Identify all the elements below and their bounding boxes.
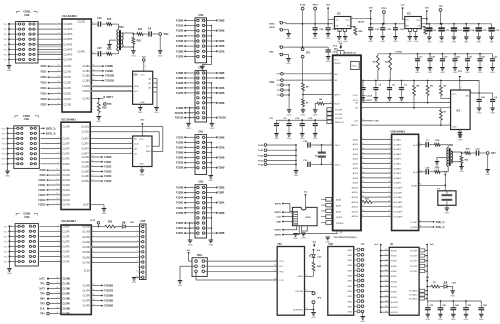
ground of LED [447, 287, 453, 291]
resistor R19 [429, 171, 434, 173]
wire CN6 ground bus [283, 84, 289, 86]
svg-text:2: 2 [137, 230, 138, 232]
ground [141, 167, 143, 171]
svg-text:GND: GND [274, 138, 279, 140]
svg-text:GND: GND [464, 319, 469, 321]
ground [459, 166, 464, 168]
svg-text:ACB16: ACB16 [352, 215, 359, 218]
svg-text:F1D5B: F1D5B [176, 147, 184, 149]
svg-text:10: 10 [136, 271, 138, 273]
svg-text:XC95/VLC2: XC95/VLC2 [344, 52, 356, 54]
svg-text:HG5B: HG5B [391, 276, 397, 278]
svg-text:U1C-BANK1: U1C-BANK1 [61, 117, 77, 121]
LED LD3 [440, 286, 444, 288]
svg-text:F1D3B: F1D3B [176, 168, 184, 170]
svg-text:103: 103 [385, 265, 388, 267]
ground [311, 312, 316, 314]
svg-text:12: 12 [56, 179, 58, 181]
capacitor C6 [492, 93, 494, 100]
svg-text:GND: GND [415, 72, 420, 74]
svg-text:GND: GND [107, 49, 112, 51]
resistor R16 [102, 23, 107, 25]
svg-text:CN9: CN9 [269, 51, 274, 53]
svg-text:SDA: SDA [134, 85, 139, 88]
wire TR1 secondary bottom [451, 162, 462, 167]
svg-text:CL7NS: CL7NS [64, 105, 72, 107]
svg-text:GND: GND [287, 138, 292, 140]
svg-text:GND: GND [301, 114, 306, 116]
svg-text:20: 20 [362, 181, 364, 183]
wire 3V3 into IC5 [328, 18, 334, 20]
svg-text:6: 6 [92, 256, 93, 258]
ground of CN3 [202, 57, 211, 67]
resistor R7 pulldown [302, 99, 305, 106]
resistor R10 [377, 56, 380, 71]
svg-text:F1D8B: F1D8B [217, 233, 225, 235]
svg-text:F1D8B: F1D8B [176, 108, 184, 110]
svg-text:4: 4 [57, 142, 58, 144]
svg-text:GND: GND [287, 114, 292, 116]
svg-text:8: 8 [57, 260, 58, 262]
svg-text:VCCAUX: VCCAUX [409, 290, 418, 293]
svg-text:1: 1 [449, 124, 450, 126]
svg-text:GND: GND [347, 276, 352, 278]
svg-text:TDO: TDO [279, 261, 284, 263]
svg-text:F1D9B: F1D9B [176, 78, 184, 80]
ground [132, 47, 134, 51]
svg-text:F1D4B: F1D4B [217, 157, 225, 160]
svg-text:71: 71 [306, 275, 308, 277]
svg-text:CL1BS: CL1BS [83, 71, 91, 73]
LED LD2 [313, 250, 315, 254]
svg-text:GL2AP1: GL2AP1 [393, 148, 402, 151]
svg-text:R16: R16 [107, 19, 112, 21]
svg-text:GND: GND [347, 265, 352, 267]
svg-text:GND: GND [286, 63, 291, 65]
svg-text:49: 49 [362, 94, 364, 96]
svg-text:CLK: CLK [277, 217, 282, 219]
svg-text:5: 5 [137, 245, 138, 247]
svg-text:F1D23: F1D23 [104, 170, 112, 173]
svg-text:F1D20B: F1D20B [104, 305, 113, 308]
svg-text:F1D2: F1D2 [41, 76, 48, 79]
svg-text:4: 4 [471, 91, 472, 93]
svg-text:GND: GND [393, 41, 398, 43]
svg-text:CL0N6: CL0N6 [82, 157, 90, 159]
svg-text:CL4P2: CL4P2 [63, 159, 71, 161]
svg-text:ACB6: ACB6 [353, 167, 359, 170]
svg-text:F1D6B: F1D6B [217, 137, 225, 139]
svg-text:7: 7 [57, 157, 58, 159]
svg-text:VCCINT: VCCINT [410, 250, 418, 252]
svg-text:43: 43 [91, 170, 93, 172]
svg-text:CN4: CN4 [164, 33, 169, 36]
svg-text:GND: GND [347, 260, 352, 262]
svg-text:GL4AP1: GL4AP1 [393, 158, 402, 161]
capacitor C8 [143, 33, 148, 35]
svg-text:F1D4B: F1D4B [176, 187, 184, 190]
svg-text:GND: GND [485, 174, 490, 176]
svg-text:GND: GND [140, 175, 145, 177]
svg-text:GND: GND [276, 222, 281, 224]
svg-text:GND: GND [464, 42, 469, 44]
svg-text:CL5N6: CL5N6 [82, 181, 90, 183]
svg-text:47: 47 [362, 119, 364, 121]
svg-text:GND: GND [347, 312, 352, 314]
svg-text:VCC: VCC [452, 94, 457, 96]
svg-text:DL6N0: DL6N0 [83, 257, 91, 259]
connector CON0 [16, 213, 20, 215]
wire VCORE rail to caps [277, 119, 327, 121]
svg-text:VCCINT: VCCINT [410, 266, 418, 268]
connector CN10 [292, 207, 317, 225]
wire R17 to T1 [112, 53, 119, 55]
svg-text:F1D21: F1D21 [104, 161, 112, 164]
net arrow PV3 [341, 35, 355, 43]
pins under IC3 [408, 29, 411, 32]
svg-text:CL4PS: CL4PS [78, 52, 86, 54]
svg-text:22: 22 [57, 76, 59, 78]
svg-text:CN5: CN5 [140, 220, 145, 223]
svg-text:GND: GND [186, 128, 191, 130]
resistor R9 [427, 80, 429, 82]
svg-text:F1D8B: F1D8B [217, 20, 225, 22]
svg-text:27: 27 [57, 103, 59, 105]
svg-text:SWt(_1): SWt(_1) [436, 221, 445, 224]
svg-text:GL3P9: GL3P9 [83, 301, 91, 303]
ground [381, 36, 386, 38]
wire U1C to IC7 data pins [90, 137, 132, 139]
wire CON0 to U1D [40, 225, 61, 227]
svg-text:CL2P2: CL2P2 [63, 149, 71, 151]
svg-text:GND: GND [479, 319, 484, 321]
svg-text:23: 23 [57, 81, 59, 83]
ground [294, 170, 299, 172]
comparator IC7 [133, 136, 152, 167]
svg-text:F1D4B: F1D4B [176, 141, 184, 144]
svg-text:C26: C26 [97, 18, 102, 20]
svg-text:41: 41 [91, 160, 93, 162]
svg-text:37: 37 [56, 312, 58, 314]
svg-text:ACB1: ACB1 [353, 143, 359, 146]
svg-text:10: 10 [388, 181, 390, 183]
eeprom IC6 [133, 71, 153, 104]
svg-text:2: 2 [57, 230, 58, 232]
svg-text:2xT2: 2xT2 [90, 220, 96, 222]
svg-text:CL5P8: CL5P8 [63, 304, 71, 306]
svg-text:F1D5B: F1D5B [176, 46, 184, 48]
svg-text:TP10: TP10 [312, 5, 318, 7]
svg-text:HG2B: HG2B [391, 261, 397, 263]
svg-text:1: 1 [129, 137, 130, 139]
svg-text:VCCAUX: VCCAUX [409, 298, 418, 301]
resistor R21 [460, 156, 463, 163]
svg-text:GL/UPN1: GL/UPN1 [413, 172, 422, 174]
svg-text:GL16AP1: GL16AP1 [393, 215, 403, 218]
svg-text:14: 14 [362, 152, 364, 154]
svg-text:CL0N8: CL0N8 [63, 279, 71, 281]
wire 3V3 to caps [460, 81, 479, 94]
svg-text:GND: GND [458, 139, 463, 141]
svg-text:F1D9B: F1D9B [217, 31, 225, 33]
svg-text:7: 7 [137, 256, 138, 258]
svg-text:GL0AP1: GL0AP1 [393, 139, 402, 142]
buffer IC4 [451, 90, 471, 130]
ground under CN7 [487, 154, 489, 169]
svg-text:GND: GND [286, 38, 291, 40]
svg-text:CL2APS: CL2APS [64, 33, 73, 36]
svg-text:GND: GND [140, 102, 145, 104]
ground of CN2 right [210, 228, 212, 240]
svg-text:CL1N6: CL1N6 [82, 162, 90, 164]
svg-text:GND: GND [188, 245, 193, 247]
svg-text:CL3BS: CL3BS [83, 81, 91, 83]
svg-text:SWTE: SWTE [275, 235, 282, 237]
svg-text:CCLK: CCLK [367, 95, 373, 97]
svg-text:33: 33 [56, 292, 58, 294]
svg-text:Vout: Vout [346, 19, 350, 22]
svg-text:VCC: VCC [140, 75, 145, 77]
ground [301, 109, 306, 111]
svg-text:CL3PV: CL3PV [81, 154, 89, 156]
svg-text:CL1N0: CL1N0 [63, 127, 71, 129]
ground at U1C output [90, 204, 104, 206]
svg-text:79: 79 [419, 143, 421, 145]
svg-text:GND: GND [414, 41, 419, 43]
capacitor C5 [375, 80, 377, 82]
svg-text:16: 16 [362, 162, 364, 164]
ground tap of TR1 [437, 158, 448, 162]
svg-text:GND: GND [490, 113, 495, 115]
svg-text:GND: GND [326, 38, 331, 40]
svg-text:GND: GND [489, 42, 494, 44]
svg-text:ADB1: ADB1 [336, 205, 342, 208]
svg-text:8: 8 [137, 261, 138, 263]
capacitor C19 osc [296, 163, 306, 165]
gray highlighted net U1D row5 [91, 246, 138, 248]
svg-text:17: 17 [388, 215, 390, 217]
svg-text:CL4P5: CL4P5 [63, 246, 71, 248]
svg-text:IC3: IC3 [407, 12, 411, 15]
svg-text:GND: GND [445, 213, 450, 215]
svg-text:CL5N4: CL5N4 [63, 195, 71, 197]
svg-text:DL4N0: DL4N0 [83, 247, 91, 249]
svg-text:109: 109 [385, 295, 388, 297]
svg-text:CL3P: CL3P [83, 205, 89, 207]
svg-text:GND: GND [368, 41, 373, 43]
wire GEN0 [305, 275, 314, 277]
svg-text:GND: GND [208, 180, 213, 182]
svg-text:F1D7B: F1D7B [217, 51, 225, 53]
svg-text:31: 31 [56, 282, 58, 284]
svg-text:PROGB: PROGB [295, 291, 303, 293]
svg-text:GND: GND [301, 238, 306, 240]
svg-text:GND: GND [452, 127, 457, 129]
svg-text:32: 32 [56, 287, 58, 289]
svg-text:TR1: TR1 [449, 144, 454, 147]
svg-text:Vout: Vout [416, 19, 420, 22]
svg-text:13: 13 [274, 265, 276, 267]
svg-text:26: 26 [362, 210, 364, 212]
svg-text:U5C: U5C [277, 244, 282, 246]
svg-text:F1D4C: F1D4C [176, 202, 184, 205]
resistor R27 feedback [421, 26, 425, 28]
ground of CN0 right [210, 103, 212, 124]
ground of MCU bottom [296, 231, 338, 234]
svg-text:>A3V3: >A3V3 [358, 21, 366, 24]
svg-text:GND: GND [326, 61, 331, 63]
svg-text:GND: GND [427, 42, 432, 44]
svg-text:6: 6 [275, 260, 276, 262]
svg-text:F1D22: F1D22 [104, 166, 112, 169]
svg-text:GL1AP1: GL1AP1 [393, 143, 402, 146]
svg-text:F1D1: F1D1 [41, 71, 48, 74]
resistor R6 [440, 80, 442, 82]
svg-text:GND: GND [132, 282, 137, 284]
svg-text:F1D8B: F1D8B [217, 73, 225, 75]
wire IC6 address pins to ground bus [153, 78, 157, 80]
LED LD1 [116, 226, 123, 228]
svg-text:F1D10B: F1D10B [175, 113, 184, 115]
svg-text:1: 1 [129, 142, 130, 144]
svg-text:F1D5B: F1D5B [176, 213, 184, 215]
svg-text:2: 2 [389, 143, 390, 145]
svg-text:F1D15: F1D15 [38, 204, 46, 207]
svg-text:1: 1 [58, 22, 59, 24]
capacitor C2 [362, 80, 364, 82]
svg-text:F1D8: F1D8 [40, 169, 47, 172]
svg-text:F1D13: F1D13 [38, 194, 46, 197]
resistor R20 [462, 152, 465, 154]
wire SUSPEND to ground [305, 309, 314, 311]
svg-text:DL1N0: DL1N0 [83, 232, 91, 234]
svg-text:GL/IPW1: GL/IPW1 [413, 145, 422, 147]
svg-text:CL7P5: CL7P5 [63, 262, 71, 264]
svg-text:20: 20 [57, 65, 59, 67]
svg-text:1: 1 [129, 147, 130, 149]
svg-text:5: 5 [352, 17, 353, 19]
svg-text:F1D0B: F1D0B [217, 41, 225, 43]
svg-text:GND: GND [452, 42, 457, 44]
wire IC5 output to A3V3 rail [351, 18, 371, 20]
svg-text:ACB9: ACB9 [353, 182, 359, 185]
svg-text:104: 104 [385, 270, 388, 272]
svg-text:DL7N0: DL7N0 [83, 263, 91, 265]
svg-text:Pv32: Pv32 [258, 156, 264, 158]
resistor R7 [440, 110, 443, 120]
svg-text:CL4APS: CL4APS [64, 43, 73, 46]
svg-text:4: 4 [389, 152, 390, 154]
svg-text:4: 4 [330, 78, 331, 80]
svg-text:MCLR: MCLR [334, 104, 340, 106]
svg-text:U1D-BANK1: U1D-BANK1 [61, 219, 77, 223]
svg-text:CL0PV: CL0PV [81, 138, 89, 140]
svg-text:44: 44 [91, 175, 93, 177]
svg-text:VREF3: VREF3 [334, 63, 341, 65]
svg-text:84: 84 [419, 184, 421, 186]
wire CN11 TCK [196, 273, 277, 280]
svg-text:GND: GND [343, 41, 348, 43]
svg-text:6: 6 [137, 250, 138, 252]
capacitor C36 [382, 24, 384, 28]
svg-text:HG6B: HG6B [391, 281, 397, 283]
capacitor C18 osc [296, 144, 306, 146]
svg-text:CL2NS: CL2NS [64, 77, 72, 79]
svg-text:CL4N6: CL4N6 [82, 176, 90, 178]
wire MCU to IC4 net2 [365, 107, 451, 109]
svg-text:15: 15 [388, 205, 390, 207]
svg-text:HG4B: HG4B [391, 271, 397, 273]
svg-text:CL6NS: CL6NS [64, 99, 72, 101]
svg-text:2: 2 [58, 28, 59, 30]
connector CON2 [17, 11, 21, 13]
capacitor C37 [327, 47, 329, 50]
svg-text:13: 13 [362, 148, 364, 150]
ground of CN30 [283, 30, 289, 34]
svg-text:2xT3: 2xT3 [39, 289, 45, 291]
wire R6 to IC4 [441, 98, 451, 100]
svg-text:CN10: CN10 [305, 217, 311, 219]
svg-text:F1D8F: F1D8F [217, 193, 225, 195]
svg-text:F1D7B: F1D7B [176, 57, 184, 59]
svg-text:F1D6B: F1D6B [217, 93, 225, 95]
svg-text:GL14AP1: GL14AP1 [393, 206, 403, 209]
svg-text:GL8AP1: GL8AP1 [393, 177, 402, 180]
svg-text:100: 100 [385, 249, 388, 251]
svg-text:CN3: CN3 [198, 14, 203, 17]
resistor R25 [132, 37, 135, 44]
svg-text:DV30: DV30 [269, 24, 275, 26]
svg-text:-CN1-: -CN1- [23, 118, 30, 121]
svg-text:GND: GND [347, 281, 352, 283]
svg-text:GL/BN: GL/BN [411, 185, 418, 187]
svg-text:F1D24: F1D24 [104, 175, 112, 178]
svg-text:HG11B: HG11B [391, 307, 398, 309]
wire IC4 top pin to 3V3 [459, 81, 461, 91]
svg-text:F1D11B: F1D11B [175, 118, 184, 120]
wire IC4 output [470, 92, 493, 94]
svg-text:CL6P5: CL6P5 [63, 257, 71, 259]
svg-text:GL10AP1: GL10AP1 [393, 187, 403, 190]
svg-text:>3V3A: >3V3A [395, 51, 402, 54]
wire PV3 arrow stub [340, 44, 342, 46]
svg-text:15: 15 [92, 52, 94, 54]
svg-text:12: 12 [362, 143, 364, 145]
svg-text:GL15AP1: GL15AP1 [393, 211, 403, 214]
svg-text:GND: GND [102, 213, 107, 215]
wire SWTD2 SWTE to CN10 bottom [283, 226, 297, 230]
svg-text:TCK,TMS,TDI,TDO(A,V): TCK,TMS,TDI,TDO(A,V) [334, 236, 357, 239]
capacitors C17-C23 row [417, 53, 419, 55]
svg-text:GL0P9: GL0P9 [83, 285, 91, 287]
svg-text:GND: GND [139, 164, 144, 166]
svg-text:DL/WN: DL/WN [411, 227, 418, 229]
svg-text:38: 38 [274, 279, 276, 281]
svg-text:10: 10 [56, 169, 58, 171]
svg-text:2: 2 [449, 97, 450, 99]
wire CON2 to U1A rows [37, 23, 62, 25]
resistor R1 [427, 286, 431, 288]
svg-text:F1D7B: F1D7B [217, 147, 225, 149]
svg-text:2: 2 [92, 235, 93, 237]
svg-text:CL2P5: CL2P5 [63, 236, 71, 238]
svg-text:7: 7 [57, 255, 58, 257]
svg-text:40: 40 [91, 155, 93, 157]
svg-text:F1D19B: F1D19B [104, 300, 113, 303]
svg-text:F1D0: F1D0 [41, 65, 48, 68]
svg-text:F1D5F: F1D5F [176, 228, 184, 230]
wire A3V3 rail [371, 23, 492, 25]
